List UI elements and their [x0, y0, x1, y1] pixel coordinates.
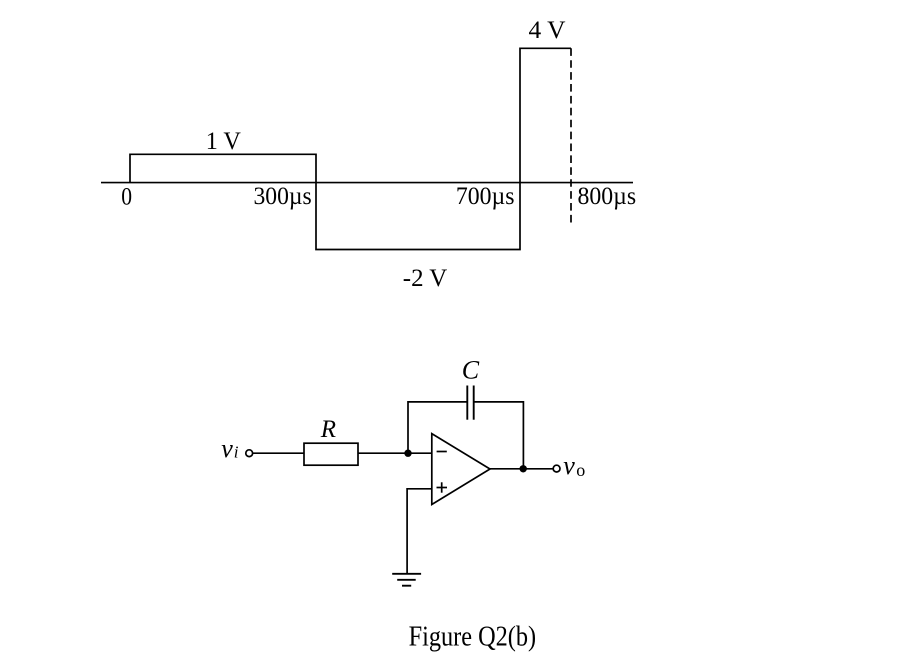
wire feedback left [408, 402, 467, 453]
svg-text:C: C [462, 356, 480, 385]
node A (inverting input junction) [404, 450, 411, 457]
terminal vo [553, 465, 560, 472]
dashed line at 800us [570, 48, 572, 222]
svg-text:1 V: 1 V [206, 128, 241, 155]
time axis [101, 182, 633, 184]
wire R to inverting input [358, 452, 432, 454]
op-amp U1 [432, 434, 490, 505]
svg-text:o: o [576, 460, 585, 480]
svg-text:v: v [563, 451, 575, 480]
wire non-inverting to ground [407, 489, 432, 574]
wire feedback right [474, 402, 524, 469]
svg-text:i: i [234, 442, 239, 461]
resistor R [304, 443, 358, 465]
minus sign (inverting pin) [437, 451, 447, 453]
svg-text:-2 V: -2 V [403, 265, 448, 292]
wire vi to R [253, 452, 304, 454]
node B (output junction) [520, 465, 527, 472]
plus sign (non-inverting pin) [437, 487, 448, 489]
svg-text:Figure Q2(b): Figure Q2(b) [409, 622, 536, 653]
svg-text:300µs: 300µs [254, 183, 312, 210]
svg-text:800µs: 800µs [578, 183, 637, 210]
ground [392, 573, 421, 575]
svg-text:v: v [221, 434, 233, 463]
svg-text:R: R [320, 416, 336, 443]
svg-text:4 V: 4 V [529, 17, 566, 44]
capacitor C [466, 386, 468, 420]
svg-text:0: 0 [121, 183, 132, 210]
wire output [490, 468, 553, 470]
terminal vi [246, 450, 253, 457]
waveform trace vi(t) [130, 48, 571, 249]
svg-text:700µs: 700µs [456, 183, 515, 210]
